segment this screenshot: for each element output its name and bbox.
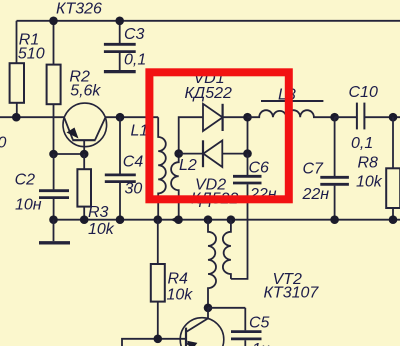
wire base node	[54, 153, 85, 155]
junction dot T1 secondary top	[227, 215, 236, 224]
capacitor C3	[104, 21, 136, 70]
wire C10 to right edge	[365, 116, 400, 118]
transistor VT2	[180, 318, 224, 346]
wire node A corner to VD1 anode	[179, 117, 203, 153]
junction dot node B bottom	[243, 149, 252, 158]
transformer T1 secondary	[223, 220, 231, 279]
junction dot base/R3	[80, 150, 89, 159]
junction dot node A	[174, 149, 183, 158]
svg-text:L2: L2	[179, 157, 197, 174]
resistor R2	[47, 21, 61, 154]
junction dot L2 bottom	[174, 215, 183, 224]
junction dot R1/input wire	[12, 113, 21, 122]
junction dot VT2 collector node	[204, 304, 213, 313]
svg-text:1н: 1н	[252, 341, 270, 346]
junction dot C4 bottom	[116, 215, 125, 224]
junction dot rail/R2	[49, 17, 58, 26]
capacitor C2	[39, 154, 69, 220]
junction dot R3 bottom	[80, 215, 89, 224]
wire C6 to secondary	[231, 184, 248, 279]
transformer T1 primary	[208, 220, 216, 308]
svg-text:0,1: 0,1	[124, 52, 146, 69]
wire collector	[105, 116, 158, 118]
capacitor C6	[233, 154, 262, 183]
svg-text:C10: C10	[349, 84, 378, 101]
junction dot T1 primary top	[204, 215, 213, 224]
highlight box	[149, 72, 288, 199]
junction dot C7 bottom	[330, 215, 339, 224]
junction dot node B top	[243, 113, 252, 122]
svg-text:0,1: 0,1	[351, 135, 373, 152]
svg-text:C3: C3	[124, 26, 145, 43]
wire base stub	[83, 140, 85, 154]
svg-text:30: 30	[125, 181, 143, 198]
svg-text:10k: 10k	[356, 174, 383, 191]
svg-text:C6: C6	[249, 160, 270, 177]
diode VD2	[179, 140, 248, 167]
resistor R4	[151, 220, 165, 339]
wire emitter input	[0, 116, 64, 118]
junction dot R4/base	[154, 335, 163, 344]
junction dot L1/R4	[154, 215, 163, 224]
junction dot collector/C4	[116, 113, 125, 122]
wire to C10	[335, 116, 357, 118]
resistor R3	[77, 154, 91, 220]
svg-text:R4: R4	[168, 271, 189, 288]
svg-text:C7: C7	[303, 161, 325, 178]
svg-text:КТ3107: КТ3107	[264, 285, 320, 302]
capacitor C10	[357, 103, 365, 130]
svg-text:C2: C2	[15, 172, 36, 189]
ground C3	[104, 70, 136, 73]
svg-text:КД522: КД522	[185, 85, 232, 102]
resistor R1	[10, 21, 24, 117]
wire VT2 base	[122, 339, 186, 346]
junction dot R2/C2	[49, 150, 58, 159]
svg-text:C5: C5	[249, 315, 270, 332]
junction dot L3/C7	[330, 113, 339, 122]
wire VT2 collector stub	[207, 308, 209, 319]
capacitor C7	[320, 117, 349, 220]
core line L3	[261, 100, 323, 102]
wire top supply rail	[17, 20, 400, 22]
ground	[39, 220, 70, 243]
diode VD1	[203, 104, 248, 131]
transistor VT1	[63, 103, 107, 147]
junction dot rail/C3	[115, 17, 124, 26]
svg-text:R8: R8	[358, 155, 379, 172]
resistor R8	[386, 117, 400, 220]
inductor L1	[158, 117, 166, 220]
svg-text:C4: C4	[123, 154, 144, 171]
capacitor C5	[231, 308, 262, 346]
wire bottom rail	[54, 219, 400, 221]
junction dot C10/R8	[389, 113, 398, 122]
junction dot C2/gnd	[49, 215, 58, 224]
capacitor C4	[105, 117, 136, 220]
wire node B column	[247, 117, 249, 153]
svg-text:10k: 10k	[167, 287, 194, 304]
svg-text:0: 0	[0, 135, 7, 152]
svg-text:510: 510	[18, 46, 45, 63]
svg-text:КТ326: КТ326	[56, 1, 102, 18]
svg-text:10н: 10н	[15, 197, 42, 214]
inductor L3	[248, 110, 335, 117]
wire collector node to C5	[208, 307, 245, 309]
arrow on bottom wire	[171, 217, 177, 223]
svg-text:10k: 10k	[88, 221, 115, 238]
svg-text:22н: 22н	[302, 186, 330, 203]
inductor L2	[171, 154, 179, 220]
svg-text:5,6k: 5,6k	[70, 83, 101, 100]
junction dot R8 bottom	[389, 215, 398, 224]
svg-text:R3: R3	[88, 204, 109, 221]
